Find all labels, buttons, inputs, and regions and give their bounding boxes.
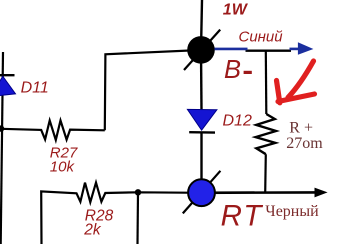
resistor R28 with wires [41,183,201,244]
node junction dot bottom [135,189,141,195]
wire corner up to B- node [105,50,201,130]
svg-text:1W: 1W [223,2,249,19]
wire left vertical [1,52,3,244]
svg-text:10k: 10k [50,158,76,175]
svg-text:Черный: Черный [265,203,319,220]
red hand-drawn arrow [277,61,315,103]
wire R+ down to bottom rail [264,154,267,193]
svg-text:Синий: Синий [239,29,284,46]
wire junction down [136,192,139,244]
diode D11 [0,76,16,96]
wire top into B- node [201,0,202,50]
wire R+ connector from blue arrow [265,50,268,114]
svg-text:R +: R + [289,119,313,136]
blue arrow head [290,42,314,55]
node junction dot left [0,125,4,131]
arrowhead bottom rail [315,188,328,198]
svg-text:RT: RT [221,199,264,232]
resistor R+ 27om [256,114,276,154]
svg-text:2k: 2k [83,221,102,238]
node RT (blue circle) [188,179,215,206]
diode D11 cathode bar [0,74,15,76]
resistor R27 [1,121,105,141]
svg-text:D12: D12 [223,112,252,129]
svg-text:D11: D11 [21,80,49,97]
hatch through B- node [184,30,220,70]
diode D12 [187,109,217,130]
node B- (black circle) [187,36,215,64]
blue arrow tail segment [215,48,248,51]
wire bottom rail to arrow [202,191,316,194]
svg-text:B: B [224,56,241,84]
wire black under blue arrow [246,50,292,52]
svg-text:27om: 27om [286,135,323,152]
wire D12 to RT node [200,132,202,181]
hatch through RT node [183,171,221,214]
wire B- node down to D12 [200,50,203,110]
diode D12 cathode bar [189,131,215,134]
